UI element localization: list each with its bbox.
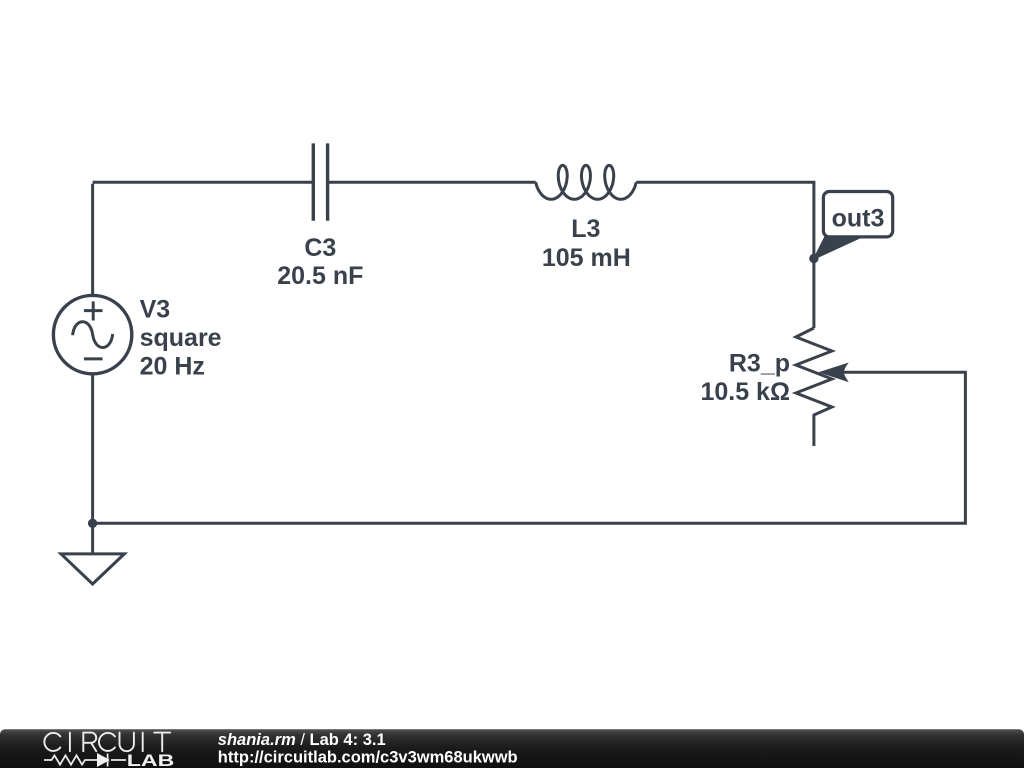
svg-text:R3_p: R3_p bbox=[729, 350, 790, 378]
out3 bubble box bbox=[823, 192, 892, 237]
wire V3 bottom to ground bbox=[91, 374, 94, 554]
voltage source V3 circle bbox=[53, 295, 131, 373]
logo resistor-diode glyph bbox=[44, 754, 126, 767]
svg-text:shania.rm / Lab 4: 3.1: shania.rm / Lab 4: 3.1 bbox=[218, 731, 386, 749]
svg-text:105 mH: 105 mH bbox=[542, 244, 631, 272]
svg-text:C3: C3 bbox=[304, 234, 336, 262]
svg-text:10.5 kΩ: 10.5 kΩ bbox=[700, 378, 790, 406]
wire inductor to top-right corner down to pot bbox=[636, 181, 814, 328]
capacitor C3 plates bbox=[313, 143, 327, 220]
V3 minus sign bbox=[84, 357, 103, 360]
svg-text:square: square bbox=[140, 324, 222, 352]
inductor L3 coil bbox=[536, 165, 637, 199]
wire wiper to right vertical to bottom rail bbox=[93, 372, 966, 523]
svg-text:20.5 nF: 20.5 nF bbox=[277, 262, 363, 290]
svg-text:http://circuitlab.com/c3v3wm68: http://circuitlab.com/c3v3wm68ukwwb bbox=[218, 748, 518, 766]
logo CIRCUIT stroked letters bbox=[44, 733, 170, 752]
ground symbol bbox=[61, 554, 124, 584]
junction dot bottom-left bbox=[88, 519, 97, 528]
wire cap right plate to inductor bbox=[328, 181, 536, 184]
wire top-left: V3 top to cap left plate bbox=[93, 182, 314, 295]
logo diode triangle bbox=[97, 753, 110, 767]
out3 bubble tail bbox=[814, 235, 857, 259]
svg-text:V3: V3 bbox=[140, 296, 171, 324]
svg-text:LAB: LAB bbox=[127, 752, 174, 768]
node dot out3 bbox=[809, 254, 818, 263]
svg-text:L3: L3 bbox=[571, 215, 600, 243]
svg-text:out3: out3 bbox=[832, 205, 885, 233]
potentiometer R3_p zigzag body bbox=[796, 328, 832, 446]
svg-text:20 Hz: 20 Hz bbox=[140, 352, 205, 380]
V3 sine wave bbox=[73, 322, 113, 348]
V3 plus sign bbox=[84, 301, 103, 320]
pot wiper arrow bbox=[820, 363, 848, 381]
